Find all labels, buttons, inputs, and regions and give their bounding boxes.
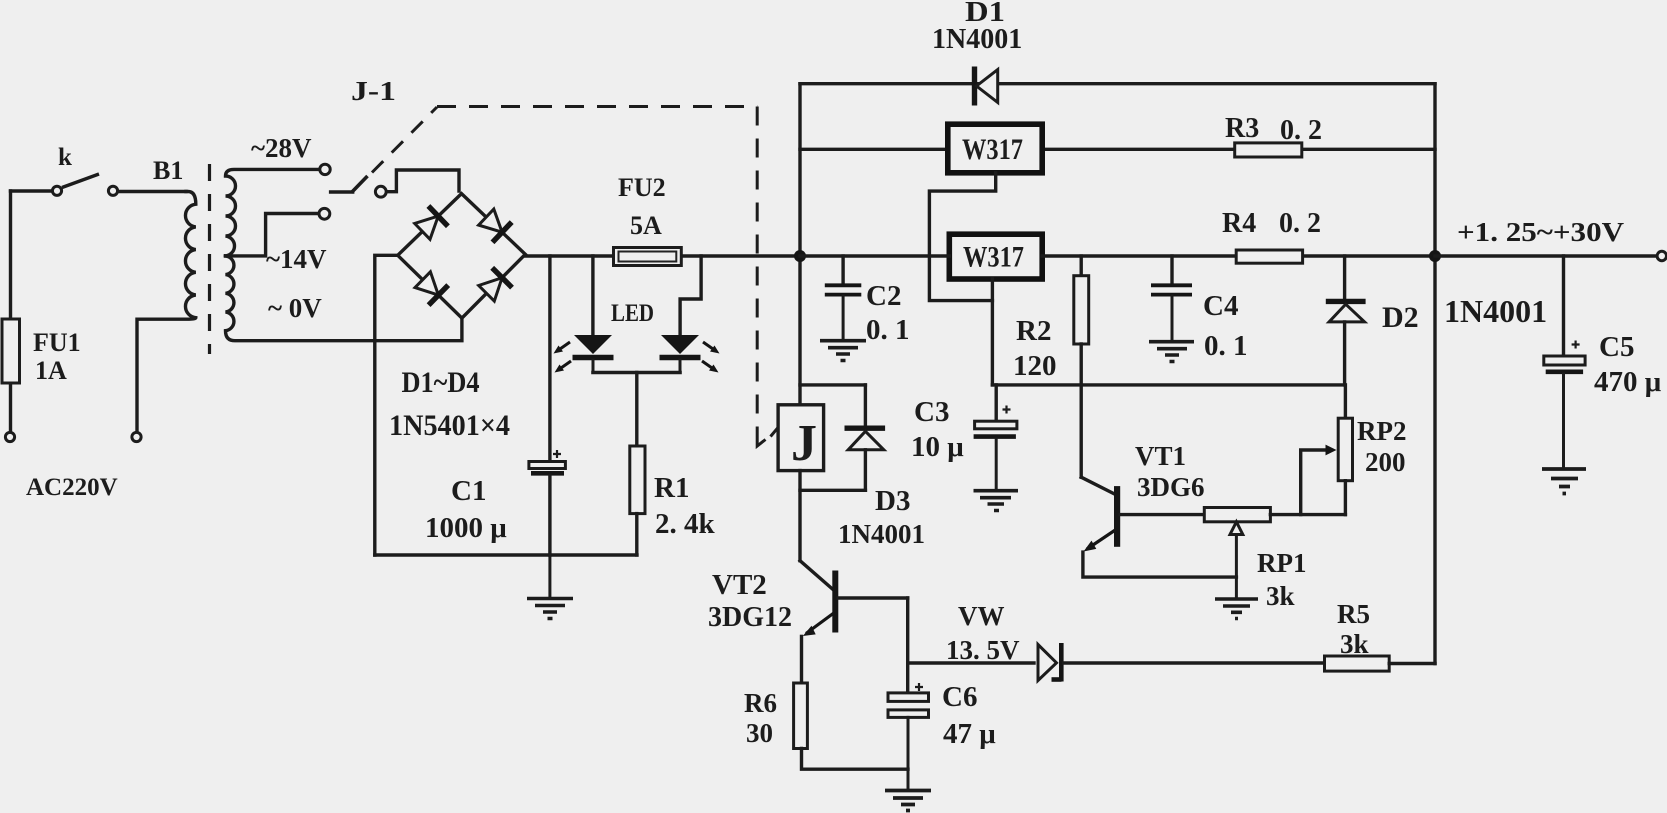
- label D1~D4 1N5401x4: [389, 366, 510, 442]
- svg-text:VW: VW: [958, 601, 1005, 631]
- svg-text:AC220V: AC220V: [26, 474, 118, 501]
- terminal AC right: [132, 432, 141, 441]
- resistor R6: [794, 683, 908, 769]
- label ~28V: [251, 133, 312, 163]
- svg-text:D1~D4: D1~D4: [402, 366, 480, 399]
- svg-text:47 μ: 47 μ: [943, 718, 996, 750]
- svg-text:13. 5V: 13. 5V: [946, 635, 1020, 665]
- wire main rail left: [525, 254, 799, 257]
- svg-text:3k: 3k: [1340, 629, 1369, 659]
- svg-text:R2: R2: [1016, 315, 1051, 347]
- svg-text:10 μ: 10 μ: [911, 431, 964, 463]
- svg-text:200: 200: [1365, 447, 1406, 477]
- label R5 3k: [1337, 599, 1370, 659]
- svg-text:3DG6: 3DG6: [1137, 472, 1205, 502]
- svg-text:C4: C4: [1203, 290, 1238, 322]
- svg-text:~28V: ~28V: [251, 133, 312, 163]
- svg-text:W317: W317: [963, 241, 1024, 274]
- terminal output: [1657, 251, 1666, 260]
- label R6 30: [744, 688, 777, 748]
- transformer B1 primary winding: [137, 192, 196, 433]
- bridge diode lower-left: [415, 272, 448, 305]
- relay contact fixed: [375, 186, 386, 197]
- label 1N4001 D2: [1444, 293, 1547, 329]
- label VW 13.5V: [946, 601, 1020, 665]
- svg-text:1000 μ: 1000 μ: [425, 512, 507, 544]
- label ~0V: [268, 293, 322, 323]
- svg-text:C2: C2: [866, 280, 901, 312]
- label FU1 1A: [33, 328, 81, 385]
- svg-text:R1: R1: [654, 472, 689, 504]
- wire VT2 base node: [906, 598, 909, 693]
- resistor R2: [1074, 256, 1089, 477]
- label +1.25~+30V: [1457, 217, 1625, 247]
- ground below C6: [885, 791, 931, 811]
- svg-text:1N5401×4: 1N5401×4: [389, 409, 510, 442]
- svg-text:J-1: J-1: [351, 76, 396, 106]
- zener diode VW: [1038, 643, 1325, 682]
- ground below C2: [820, 341, 866, 361]
- wire second rail: [800, 148, 1435, 151]
- label C3 10u: [911, 396, 964, 463]
- label R1 2.4k: [654, 472, 716, 540]
- wire contact to bridge: [387, 170, 459, 192]
- wire LED bottom rail: [593, 373, 680, 447]
- wire left vertical feed: [798, 84, 801, 405]
- wire switch to transformer: [118, 190, 186, 193]
- diode D3: [845, 428, 886, 490]
- svg-text:RP2: RP2: [1357, 416, 1407, 446]
- capacitor C5: [1544, 256, 1585, 467]
- potentiometer RP1: [1204, 508, 1270, 599]
- label RP2 200: [1357, 416, 1407, 477]
- regulator U1 W317 upper: [948, 124, 1042, 173]
- label B1: [153, 156, 183, 185]
- label D3 1N4001: [838, 485, 925, 549]
- svg-text:C1: C1: [451, 475, 486, 507]
- label k: [58, 144, 72, 171]
- wire relay bottom branch: [800, 489, 865, 492]
- svg-text:0. 1: 0. 1: [866, 314, 910, 346]
- svg-text:R4: R4: [1222, 208, 1256, 239]
- svg-text:3DG12: 3DG12: [708, 602, 792, 633]
- wire main rail right: [800, 254, 1435, 257]
- svg-text:~14V: ~14V: [266, 244, 327, 274]
- resistor R3: [1235, 143, 1302, 157]
- svg-text:VT2: VT2: [712, 569, 767, 601]
- svg-text:R5: R5: [1337, 599, 1370, 629]
- svg-text:1N4001: 1N4001: [932, 24, 1022, 55]
- resistor R4: [1236, 250, 1302, 263]
- wire 14V tap: [226, 214, 319, 256]
- label C5 470u: [1594, 331, 1662, 398]
- capacitor C4: [1151, 256, 1192, 340]
- svg-text:1A: 1A: [35, 356, 67, 385]
- svg-text:C6: C6: [942, 681, 977, 713]
- wire C1 branch: [548, 256, 551, 462]
- label VT2 3DG12: [708, 569, 792, 633]
- svg-text:R6: R6: [744, 688, 777, 718]
- transformer secondary upper winding: [226, 169, 320, 256]
- ground below C3: [974, 491, 1019, 511]
- terminal AC left: [5, 432, 14, 441]
- bridge diode upper-right: [479, 209, 512, 242]
- label C1 1000u: [425, 475, 507, 544]
- label RP1 3k: [1257, 548, 1307, 611]
- svg-text:C3: C3: [914, 396, 949, 428]
- svg-text:W317: W317: [962, 133, 1023, 166]
- wire LED left branch: [591, 256, 594, 335]
- wire RP1 to RP2: [1270, 445, 1345, 515]
- wire U1 adj zigzag: [929, 173, 995, 301]
- wire right vertical: [1433, 84, 1436, 664]
- label LED: [611, 300, 654, 327]
- bridge rectifier D1~D4 frame: [398, 194, 526, 319]
- label C6 47u: [942, 681, 996, 750]
- ground below RP1 wiper: [1215, 599, 1258, 619]
- LED right light arrows: [702, 342, 720, 373]
- LED left: [573, 335, 614, 373]
- resistor R5: [1325, 656, 1436, 671]
- bridge diode upper-left: [415, 206, 448, 239]
- label C4 0.1: [1203, 290, 1248, 362]
- capacitor C6: [888, 683, 929, 789]
- svg-text:1N4001: 1N4001: [1444, 293, 1547, 329]
- wire top rail: [800, 82, 1435, 85]
- svg-text:LED: LED: [611, 300, 654, 327]
- ground below C4: [1149, 342, 1194, 362]
- capacitor C1: [529, 450, 566, 555]
- transistor VT1: [1081, 477, 1236, 577]
- LED left light arrows: [554, 342, 572, 373]
- LED right: [660, 335, 701, 373]
- svg-text:120: 120: [1013, 350, 1057, 382]
- svg-text:0. 2: 0. 2: [1280, 115, 1322, 146]
- svg-text:D2: D2: [1382, 301, 1419, 334]
- terminal 28V: [320, 164, 330, 174]
- dashed linkage J-1: [372, 107, 779, 447]
- label R2 120: [1013, 315, 1057, 382]
- label AC220V: [26, 474, 118, 501]
- wire zener line: [908, 661, 1034, 664]
- relay coil J: [778, 405, 824, 561]
- svg-text:R3: R3: [1225, 113, 1259, 144]
- node main junction: [794, 250, 806, 262]
- ground below C1: [527, 555, 573, 619]
- svg-text:5A: 5A: [630, 211, 662, 240]
- svg-text:C5: C5: [1599, 331, 1634, 363]
- label J-1: [351, 76, 396, 106]
- potentiometer RP2: [1338, 385, 1352, 515]
- wire LED right branch: [680, 256, 701, 335]
- label ~14V: [266, 244, 327, 274]
- svg-text:1N4001: 1N4001: [838, 519, 925, 549]
- label VT1 3DG6: [1135, 441, 1205, 502]
- wire relay top branch: [800, 385, 865, 426]
- fuse FU1: [2, 319, 20, 383]
- wire bottom rail: [375, 553, 637, 556]
- wire U2 adj pin: [991, 279, 994, 385]
- regulator U2 W317 lower: [949, 234, 1042, 279]
- label R4 0.2: [1222, 208, 1321, 239]
- fuse FU2: [614, 248, 682, 266]
- svg-text:B1: B1: [153, 156, 183, 185]
- svg-text:k: k: [58, 144, 72, 171]
- svg-text:J: J: [791, 415, 817, 472]
- ground below C5: [1542, 469, 1586, 494]
- node output junction: [1429, 250, 1441, 262]
- label D2: [1382, 301, 1419, 334]
- wire output rail: [1435, 254, 1657, 257]
- svg-text:FU1: FU1: [33, 328, 81, 357]
- diode D2: [1326, 256, 1366, 385]
- svg-text:RP1: RP1: [1257, 548, 1307, 578]
- svg-text:0. 2: 0. 2: [1279, 208, 1321, 239]
- transformer secondary lower winding: [226, 256, 462, 341]
- svg-text:FU2: FU2: [618, 173, 666, 202]
- svg-text:3k: 3k: [1266, 581, 1295, 611]
- svg-text:~ 0V: ~ 0V: [268, 293, 322, 323]
- wire AC live input: [9, 191, 12, 433]
- terminal 14V: [319, 208, 330, 219]
- svg-text:D3: D3: [875, 485, 910, 517]
- diode D1: [975, 67, 998, 106]
- resistor R1: [630, 446, 645, 555]
- transistor VT2: [800, 561, 908, 683]
- svg-text:2. 4k: 2. 4k: [655, 508, 716, 540]
- svg-text:470 μ: 470 μ: [1594, 366, 1662, 398]
- switch k: [11, 174, 118, 195]
- svg-text:VT1: VT1: [1135, 441, 1186, 471]
- svg-text:+1. 25~+30V: +1. 25~+30V: [1457, 217, 1625, 247]
- label D1 1N4001: [932, 0, 1022, 55]
- svg-text:30: 30: [746, 718, 773, 748]
- label C2 0.1: [866, 280, 910, 346]
- bridge diode lower-right: [479, 268, 512, 301]
- relay contact J-1 arm: [331, 176, 368, 193]
- capacitor C3: [974, 385, 1017, 489]
- capacitor C2: [825, 256, 862, 339]
- label FU2 5A: [618, 173, 666, 240]
- wire adj rail: [992, 383, 1344, 386]
- label R3 0.2: [1225, 113, 1322, 146]
- svg-text:0. 1: 0. 1: [1204, 330, 1248, 362]
- transformer core: [208, 164, 211, 354]
- wire bridge minus to bottom rail: [375, 255, 398, 555]
